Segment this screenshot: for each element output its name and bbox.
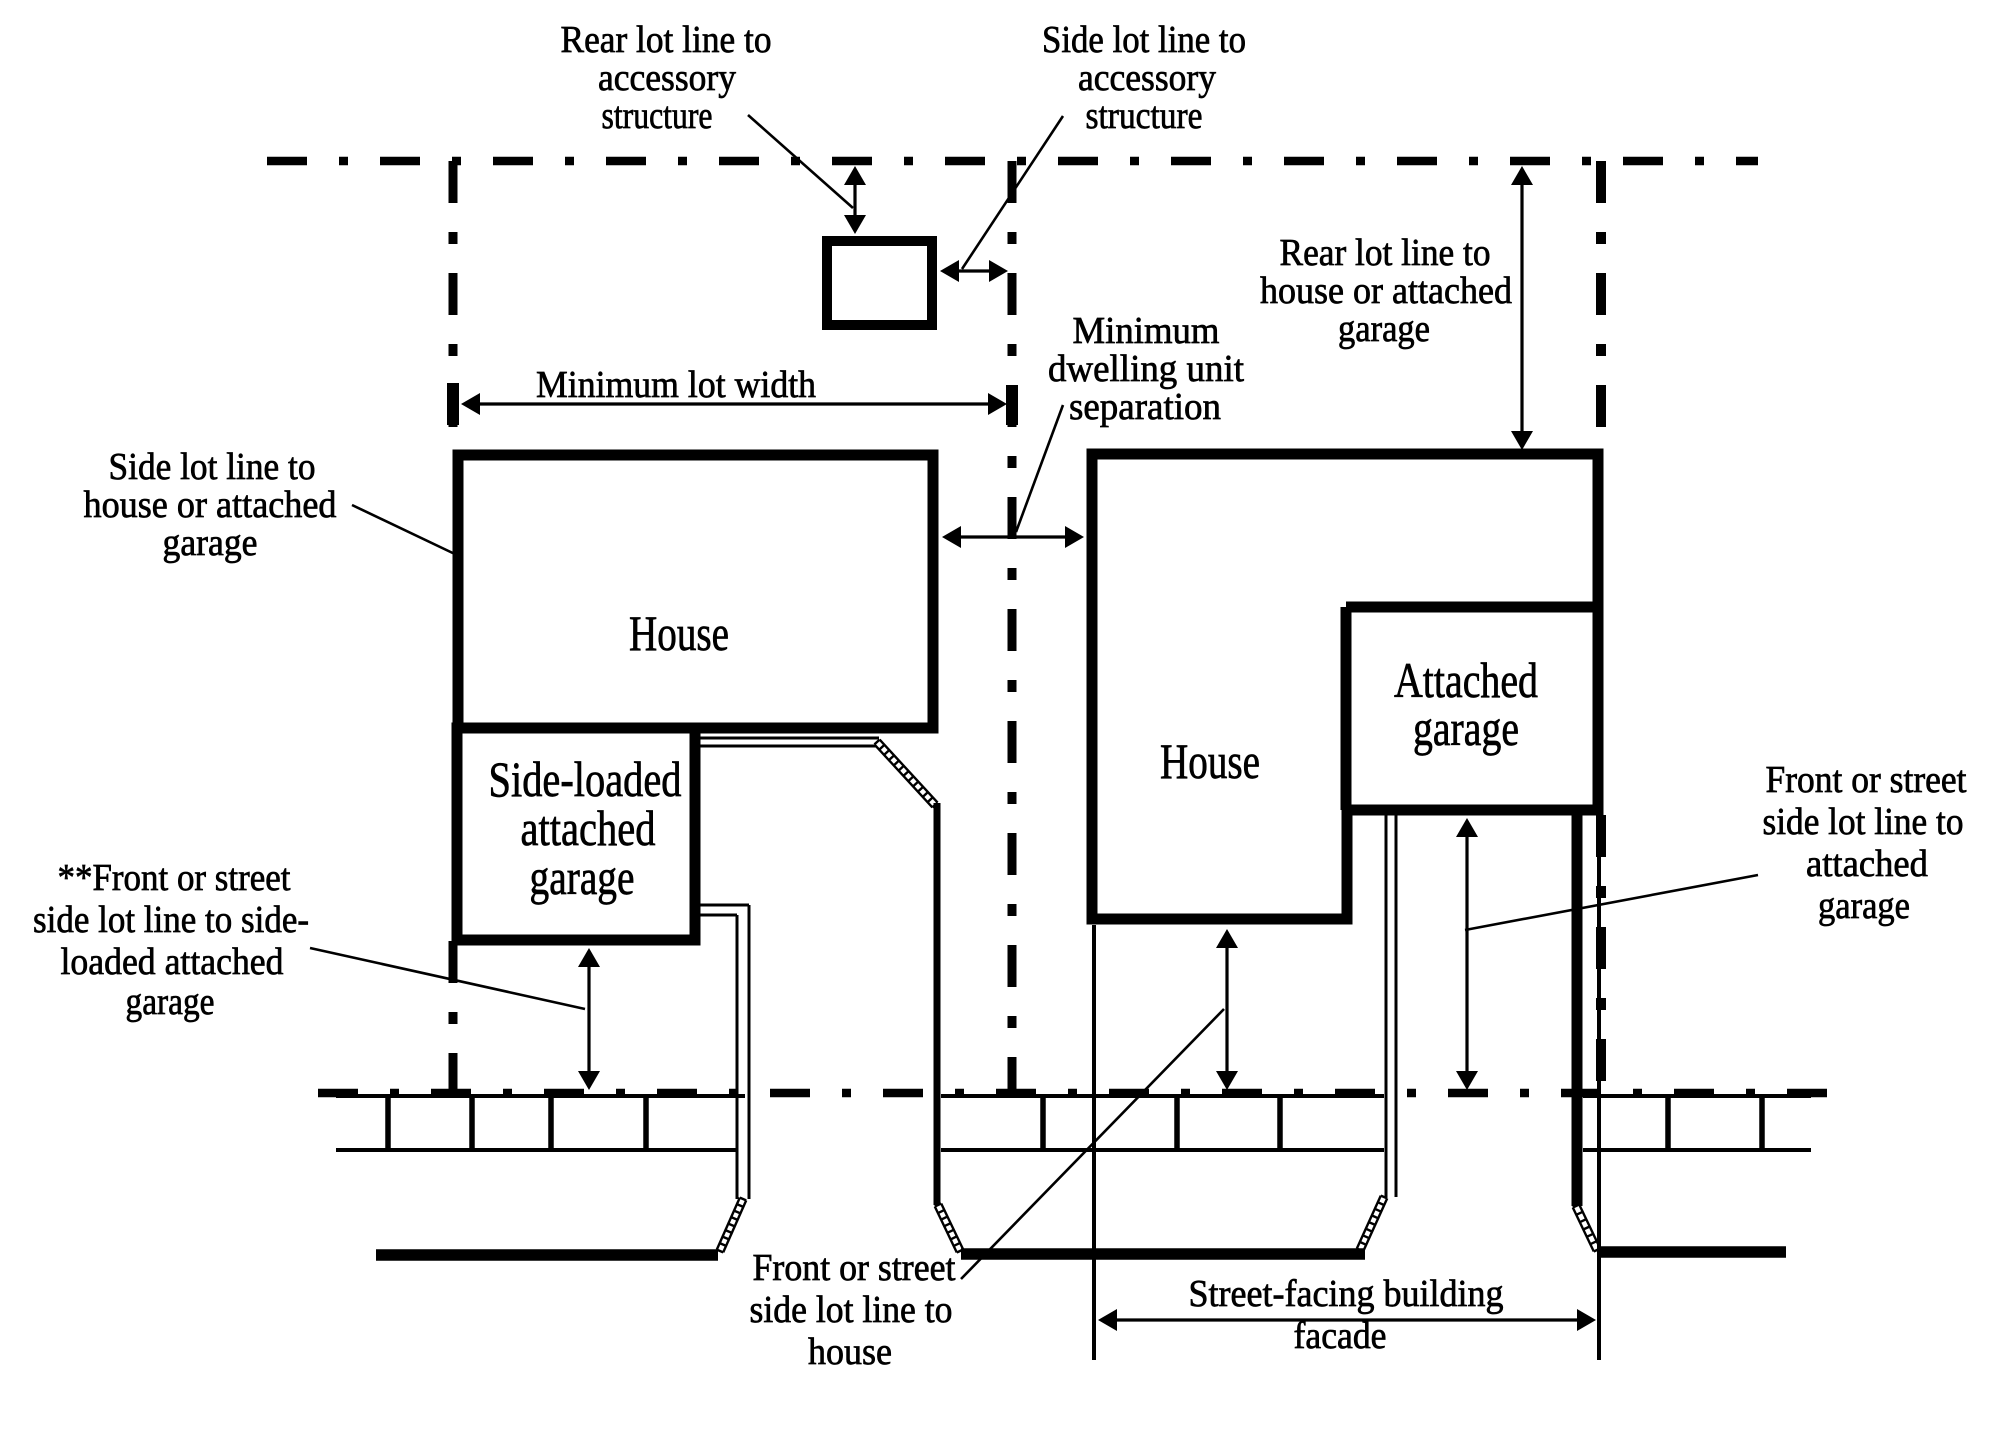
- svg-text:attached: attached: [1806, 843, 1928, 885]
- arrow: minimum lot width: [461, 393, 1007, 415]
- svg-text:attached: attached: [521, 800, 656, 856]
- street edge segment 3: [1598, 1246, 1786, 1258]
- left side lot line (dash-dot, upper): [449, 161, 458, 452]
- sidewalk joint lines: [388, 1095, 1762, 1150]
- label: house 1: [629, 605, 729, 661]
- svg-text:side lot line to: side lot line to: [1763, 801, 1964, 843]
- street edge segment 1: [376, 1249, 718, 1261]
- leader: front lot line to house (long diagonal): [961, 1009, 1224, 1279]
- svg-text:house: house: [808, 1331, 892, 1373]
- svg-text:garage: garage: [530, 849, 635, 905]
- svg-text:Minimum: Minimum: [1073, 310, 1220, 352]
- svg-text:house or attached: house or attached: [1260, 270, 1512, 312]
- accessory structure: [827, 241, 932, 325]
- svg-text:garage: garage: [1413, 700, 1519, 756]
- svg-text:accessory: accessory: [598, 57, 736, 99]
- arrow: front lot line to house 2: [1216, 929, 1238, 1090]
- walkway from house 1 (double line): [700, 738, 879, 746]
- label: street-facing building facade: [1189, 1273, 1504, 1357]
- side-loaded garage driveway (double line): [696, 905, 749, 1199]
- svg-text:garage: garage: [1818, 885, 1910, 927]
- curb cut left of attached garage driveway: [1357, 1196, 1387, 1252]
- svg-text:structure: structure: [602, 95, 713, 137]
- svg-text:loaded attached: loaded attached: [61, 941, 284, 983]
- curb cut at side-loaded garage driveway: [717, 1198, 746, 1253]
- svg-text:Minimum lot width: Minimum lot width: [536, 364, 816, 406]
- svg-text:accessory: accessory: [1078, 57, 1216, 99]
- svg-text:Street-facing building: Street-facing building: [1189, 1273, 1504, 1315]
- arrow: rear lot line to house 2: [1511, 166, 1533, 450]
- label: front or street side lot line to side-loaded attached garage: [33, 857, 309, 1023]
- label: side lot line to accessory structure: [1042, 19, 1246, 137]
- svg-text:Rear lot line to: Rear lot line to: [1280, 232, 1491, 274]
- label: side-loaded attached garage: [489, 751, 682, 905]
- label: minimum lot width: [536, 364, 816, 406]
- right lot line (dash-dot, upper): [1596, 161, 1606, 452]
- right lot line (dash-dot, lower): [1596, 815, 1606, 1093]
- svg-text:Side lot line to: Side lot line to: [1042, 19, 1246, 61]
- leader: side lot line to house 1: [352, 505, 459, 556]
- label: minimum dwelling unit separation: [1048, 310, 1244, 428]
- svg-text:Side-loaded: Side-loaded: [489, 751, 682, 807]
- house 1 outline: [458, 455, 933, 728]
- svg-text:Side lot line to: Side lot line to: [109, 446, 316, 488]
- facade extent line left: [1092, 925, 1096, 1360]
- arrow: minimum dwelling unit separation: [942, 526, 1084, 548]
- leader: front lot line to side-loaded garage: [310, 948, 585, 1009]
- label: front or street side lot line to house: [750, 1247, 956, 1373]
- svg-text:house or attached: house or attached: [84, 484, 337, 526]
- label: house 2: [1160, 733, 1260, 789]
- svg-text:Front or street: Front or street: [1766, 759, 1967, 801]
- walkway hatched ramp to street level: [874, 740, 937, 808]
- facade extent line right: [1597, 815, 1601, 1360]
- svg-text:structure: structure: [1086, 95, 1203, 137]
- curb cut right of attached garage driveway: [1573, 1205, 1600, 1252]
- leader: minimum dwelling unit separation: [1016, 405, 1063, 532]
- driveway right edge (thick): [1572, 815, 1583, 1206]
- leader: front lot line to attached garage: [1465, 875, 1758, 930]
- arrow: street-facing building facade width: [1098, 1309, 1596, 1331]
- svg-text:garage: garage: [126, 981, 215, 1023]
- side-loaded attached garage outline: [457, 728, 695, 940]
- arrow: front lot line to attached garage: [1456, 818, 1478, 1090]
- label: attached garage: [1394, 652, 1538, 756]
- rear lot line (top, dash-dot): [267, 157, 1758, 166]
- attached garage left edge: [1341, 607, 1352, 810]
- svg-text:facade: facade: [1294, 1315, 1387, 1357]
- arrow: rear lot line to accessory structure: [844, 166, 866, 234]
- svg-text:side lot line to side-: side lot line to side-: [33, 899, 309, 941]
- svg-text:**Front or street: **Front or street: [58, 857, 291, 899]
- svg-text:garage: garage: [163, 522, 258, 564]
- svg-text:side lot line to: side lot line to: [750, 1289, 953, 1331]
- curb cut at walkway: [935, 1204, 963, 1253]
- svg-text:separation: separation: [1069, 386, 1221, 428]
- leader: rear lot line to accessory structure: [748, 115, 853, 208]
- walkway vertical edge: [934, 803, 941, 1205]
- svg-text:House: House: [1160, 733, 1260, 789]
- label: rear lot line to accessory structure: [561, 19, 772, 137]
- svg-text:dwelling unit: dwelling unit: [1048, 348, 1244, 390]
- sidewalk top edge: [336, 1094, 1811, 1098]
- leader: side lot line to accessory structure: [962, 116, 1063, 269]
- label: rear lot line to house or attached garage: [1260, 232, 1512, 350]
- street edge segment 2: [961, 1248, 1365, 1260]
- svg-text:House: House: [629, 605, 729, 661]
- arrow: front lot line to side-loaded garage: [578, 948, 600, 1090]
- middle side lot line (dash-dot): [1008, 161, 1017, 1093]
- attached garage driveway (double line): [1386, 815, 1396, 1197]
- house 2 outline: [1092, 454, 1598, 919]
- sidewalk bottom edge: [336, 1148, 1811, 1152]
- minimum lot width end ticks: [447, 383, 1018, 425]
- svg-text:garage: garage: [1338, 308, 1430, 350]
- front lot line (bottom, dash-dot): [318, 1089, 1848, 1098]
- arrow: side lot line to accessory structure: [940, 260, 1008, 282]
- label: front or street side lot line to attached garage: [1763, 759, 1967, 927]
- left side lot line (dash-dot, lower): [449, 941, 458, 1093]
- attached garage top edge: [1346, 602, 1603, 613]
- svg-text:Rear lot line to: Rear lot line to: [561, 19, 772, 61]
- svg-text:Front or street: Front or street: [753, 1247, 956, 1289]
- label: side lot line to house or attached garage: [84, 446, 337, 564]
